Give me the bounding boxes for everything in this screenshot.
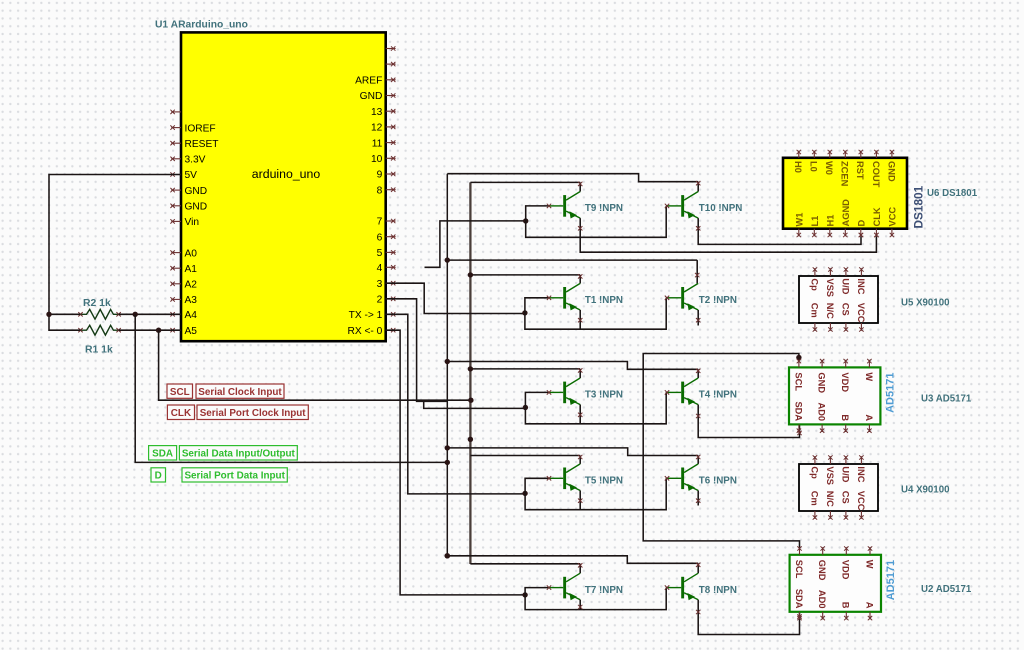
transistor T2 !NPN (681, 287, 684, 309)
svg-text:L0: L0 (809, 161, 819, 172)
svg-text:AREF: AREF (355, 76, 382, 87)
svg-text:6: 6 (377, 232, 383, 243)
svg-text:A2: A2 (185, 280, 198, 291)
svg-text:13: 13 (371, 107, 383, 118)
junction bus A block T8 (445, 553, 450, 558)
wire T4 collector (697, 369, 699, 378)
wire T6 collector (697, 456, 699, 464)
wire T1 collector (579, 275, 581, 284)
wire T3 collector (579, 369, 581, 378)
svg-text:Vin: Vin (185, 217, 200, 228)
wire bus B to T5 collector (470, 455, 580, 457)
wire bus A to T4 collector (447, 362, 698, 370)
svg-text:A3: A3 (185, 295, 198, 306)
svg-text:T5 !NPN: T5 !NPN (585, 476, 623, 487)
wire T8 collector (697, 563, 699, 573)
svg-text:SDA: SDA (794, 589, 804, 609)
svg-text:W0: W0 (824, 161, 834, 175)
wire T9 collector (579, 182, 581, 191)
svg-text:Serial Port Clock Input: Serial Port Clock Input (200, 408, 307, 419)
svg-text:ZCEN: ZCEN (840, 161, 850, 187)
svg-text:W1: W1 (794, 213, 804, 227)
svg-text:IOREF: IOREF (185, 123, 216, 134)
junction bus A bottom corner (445, 553, 450, 558)
svg-text:R1 1k: R1 1k (85, 345, 113, 356)
U6 top pins H0 L0 W0 ZCEN RST COUT GND (798, 151, 800, 158)
svg-text:A1: A1 (185, 264, 198, 275)
wire base feed up to T9 (526, 206, 548, 221)
wire TX1 feed to T5 base (386, 314, 525, 494)
svg-text:INC: INC (856, 466, 866, 482)
IC U3 AD5171 (789, 367, 880, 424)
wire bus A to T8 collector (447, 556, 698, 564)
junction U3 SCL pin (796, 355, 801, 360)
svg-text:T4 !NPN: T4 !NPN (699, 390, 737, 401)
svg-text:CS: CS (840, 491, 850, 504)
wire SCL net A5 down-right (159, 330, 471, 400)
IC U4 X90100 (799, 464, 878, 511)
wire T8 emitter to U2 SDA (698, 600, 799, 635)
svg-text:U1 ARarduino_uno: U1 ARarduino_uno (155, 20, 248, 31)
svg-text:H0: H0 (793, 161, 803, 173)
svg-text:U/D: U/D (840, 466, 850, 482)
svg-text:W: W (864, 372, 874, 381)
wire base rail to T10 (526, 206, 667, 237)
net label SCL description (196, 384, 284, 398)
wire T10 collector (697, 182, 699, 192)
svg-text:L1: L1 (810, 216, 820, 227)
wire bus A to T6 collector (447, 448, 698, 456)
svg-text:D: D (856, 220, 866, 227)
IC U2 AD5171 (790, 555, 881, 612)
svg-text:N/C: N/C (825, 303, 835, 319)
wire T3 emitter (579, 405, 581, 424)
wire pin4 feed to T9 base (425, 221, 526, 267)
svg-text:7: 7 (377, 217, 383, 228)
mystery junction bus B (468, 437, 473, 442)
U6 bottom pins W1 L1 H1 AGND D CLK VCC (798, 229, 800, 237)
wire base rail to T6 (525, 478, 666, 509)
svg-text:VDD: VDD (840, 372, 850, 392)
net label SDA description (179, 446, 297, 460)
junction bus B SCL row (468, 398, 473, 403)
wire SDA net A4 down-right (135, 314, 447, 462)
svg-text:INC: INC (856, 278, 866, 294)
svg-text:SCL: SCL (794, 560, 804, 579)
junction bus A block T4 (445, 359, 450, 364)
junction 5V rail (46, 312, 51, 317)
svg-text:W: W (864, 560, 874, 569)
svg-text:GND: GND (185, 186, 208, 197)
wire R1 to A5 (119, 329, 181, 331)
svg-text:GND: GND (886, 161, 896, 182)
wire RX0 feed to T7 base (386, 330, 525, 595)
transistor T1 !NPN (563, 287, 566, 309)
svg-text:U5 X90100: U5 X90100 (901, 298, 949, 309)
svg-text:D: D (155, 471, 162, 482)
svg-text:R2 1k: R2 1k (83, 298, 111, 309)
svg-text:Serial Port Data Input: Serial Port Data Input (184, 471, 285, 482)
resistor R2 (81, 309, 119, 319)
svg-text:Serial Clock Input: Serial Clock Input (198, 387, 282, 398)
wire bus B vertical (469, 182, 471, 564)
svg-text:A4: A4 (185, 310, 198, 321)
net label D (151, 468, 166, 482)
wire T5 emitter (579, 491, 581, 510)
svg-text:U4 X90100: U4 X90100 (901, 485, 949, 496)
junction A5/SCL (156, 328, 161, 333)
svg-text:VCC: VCC (888, 207, 898, 227)
transistor T10 !NPN (681, 195, 684, 217)
svg-text:10: 10 (371, 154, 383, 165)
svg-text:Cp: Cp (809, 466, 819, 479)
U1 left pins IOREF..A5 with labels (171, 111, 181, 113)
svg-text:U/D: U/D (840, 278, 850, 294)
wire base rail to T8 (525, 588, 666, 610)
svg-text:T10 !NPN: T10 !NPN (699, 203, 743, 214)
wire T2 collector (696, 260, 698, 283)
net label SCL (167, 384, 193, 398)
IC U5 X90100 (799, 276, 878, 323)
transistor T3 !NPN (563, 382, 566, 404)
transistor T8 !NPN (681, 577, 684, 599)
wire T7 collector (579, 564, 581, 573)
wire 5V to R1/R2 left rail (49, 175, 181, 331)
svg-text:B: B (840, 414, 850, 421)
svg-text:A5: A5 (185, 326, 198, 337)
svg-text:T9 !NPN: T9 !NPN (585, 203, 623, 214)
resistor R1 (81, 325, 119, 335)
node base feed T5/T6 (522, 491, 527, 496)
node base feed T3/T4 (523, 405, 528, 410)
svg-text:CS: CS (840, 303, 850, 316)
wire bus B to T1 collector (470, 274, 580, 276)
svg-text:RST: RST (855, 161, 865, 180)
transistor T4 !NPN (681, 382, 684, 404)
wire R2 to A4 (119, 313, 181, 315)
svg-text:5: 5 (377, 248, 383, 259)
net label CLK description (197, 405, 308, 420)
wire T1 emitter (579, 310, 581, 330)
svg-text:VDD: VDD (841, 560, 851, 580)
svg-text:2: 2 (377, 295, 383, 306)
svg-text:T7 !NPN: T7 !NPN (585, 585, 623, 596)
svg-text:AGND: AGND (841, 199, 851, 227)
wire T6 emitter (697, 491, 699, 506)
svg-text:A: A (864, 414, 874, 421)
net label SDA (149, 446, 177, 460)
svg-text:AD0: AD0 (817, 590, 827, 609)
svg-text:GND: GND (185, 202, 208, 213)
wire bus A to T10 collector (447, 174, 698, 182)
wire base feed up to T3 (525, 392, 548, 407)
svg-text:Cm: Cm (809, 491, 819, 506)
svg-text:COUT: COUT (871, 161, 881, 188)
svg-text:N/C: N/C (825, 491, 835, 507)
svg-text:VCC: VCC (856, 491, 866, 511)
svg-text:9: 9 (377, 170, 383, 181)
svg-text:VSS: VSS (825, 466, 835, 485)
svg-text:3: 3 (377, 279, 383, 290)
wire pin2 down (386, 299, 447, 402)
wire T10 emitter to D line (698, 218, 861, 244)
net label CLK (167, 405, 194, 420)
junction bus B block T1 (468, 272, 473, 277)
transistor T7 !NPN (563, 577, 566, 599)
svg-text:GND: GND (360, 91, 383, 102)
svg-text:VSS: VSS (825, 278, 835, 297)
svg-text:U3 AD5171: U3 AD5171 (921, 394, 972, 405)
svg-text:arduino_uno: arduino_uno (252, 167, 321, 181)
svg-text:AD0: AD0 (817, 402, 827, 421)
svg-text:Serial Data Input/Output: Serial Data Input/Output (182, 449, 296, 460)
wire bus B to T3 collector (470, 368, 580, 370)
svg-text:SCL: SCL (793, 372, 803, 391)
svg-text:H1: H1 (825, 215, 835, 227)
net label D description (182, 468, 287, 482)
junction bus A block T2 (445, 257, 450, 262)
wire bus B to T7 collector (470, 563, 580, 565)
wire T4 emitter to U3 SDA (698, 405, 799, 438)
svg-text:SDA: SDA (793, 401, 803, 421)
svg-text:AD5171: AD5171 (885, 560, 897, 600)
transistor T5 !NPN (563, 468, 566, 490)
svg-text:U2 AD5171: U2 AD5171 (921, 584, 972, 595)
svg-text:U6 DS1801: U6 DS1801 (927, 188, 978, 199)
svg-text:Cm: Cm (809, 303, 819, 318)
node base feed T1/T2 (522, 310, 527, 315)
svg-text:A0: A0 (185, 248, 198, 259)
IC U6 DS1801 body (783, 158, 907, 229)
wire pin3 feed to T1 base (386, 283, 525, 313)
svg-text:11: 11 (372, 138, 383, 149)
svg-text:GND: GND (817, 560, 827, 581)
svg-text:CLK: CLK (872, 207, 882, 226)
svg-text:TX -> 1: TX -> 1 (349, 310, 383, 321)
svg-text:A: A (864, 602, 874, 609)
IC U1 arduino_uno body (181, 32, 386, 341)
wire T9 emitter to CLK line (580, 218, 876, 252)
svg-text:AD5171: AD5171 (884, 373, 896, 413)
wire bus B to T9 collector (470, 181, 580, 183)
svg-text:T3 !NPN: T3 !NPN (585, 390, 623, 401)
wire bus A vertical (446, 174, 448, 556)
wire R2 left stub (49, 313, 81, 315)
svg-text:RESET: RESET (185, 139, 219, 150)
svg-text:T8 !NPN: T8 !NPN (699, 585, 737, 596)
svg-text:5V: 5V (185, 170, 198, 181)
svg-text:T6 !NPN: T6 !NPN (699, 476, 737, 487)
svg-text:8: 8 (377, 185, 383, 196)
svg-text:4: 4 (377, 263, 383, 274)
wire base feed up to T7 (525, 588, 548, 595)
svg-text:3.3V: 3.3V (185, 155, 206, 166)
svg-text:B: B (841, 602, 851, 609)
wire base feed up to T5 (525, 478, 548, 493)
wire jog to T3 base (424, 401, 526, 408)
wire T7 emitter (579, 600, 581, 610)
svg-text:VCC: VCC (856, 303, 866, 323)
svg-text:T2 !NPN: T2 !NPN (699, 295, 737, 306)
U1 right pins AREF..RX0 with labels (386, 48, 396, 50)
wire SCL to U3 and U2 (643, 354, 799, 549)
svg-text:Cp: Cp (809, 278, 819, 291)
wire T5 collector (579, 456, 581, 464)
wire base rail to T2 (525, 298, 666, 329)
svg-text:RX <- 0: RX <- 0 (347, 326, 382, 337)
svg-text:SDA: SDA (152, 449, 173, 460)
transistor T9 !NPN (563, 195, 566, 217)
svg-text:CLK: CLK (171, 408, 192, 419)
svg-text:DS1801: DS1801 (912, 185, 926, 228)
junction bus B block T3 (468, 366, 473, 371)
wire T2 emitter (697, 310, 699, 326)
wire base rail to T4 (525, 392, 666, 423)
svg-text:12: 12 (371, 123, 383, 134)
node base feed T7/T8 (522, 592, 527, 597)
node base feed T9/T10 (523, 218, 528, 223)
junction bus A pin2 (445, 460, 450, 465)
junction bus A block T6 (445, 445, 450, 450)
wire bus A to T2 collector (447, 259, 697, 261)
wire base feed up to T1 (525, 298, 548, 313)
svg-text:T1 !NPN: T1 !NPN (585, 295, 623, 306)
svg-text:SCL: SCL (170, 387, 190, 398)
svg-text:GND: GND (817, 372, 827, 393)
junction A4/SDA (133, 312, 138, 317)
transistor T6 !NPN (681, 468, 684, 490)
